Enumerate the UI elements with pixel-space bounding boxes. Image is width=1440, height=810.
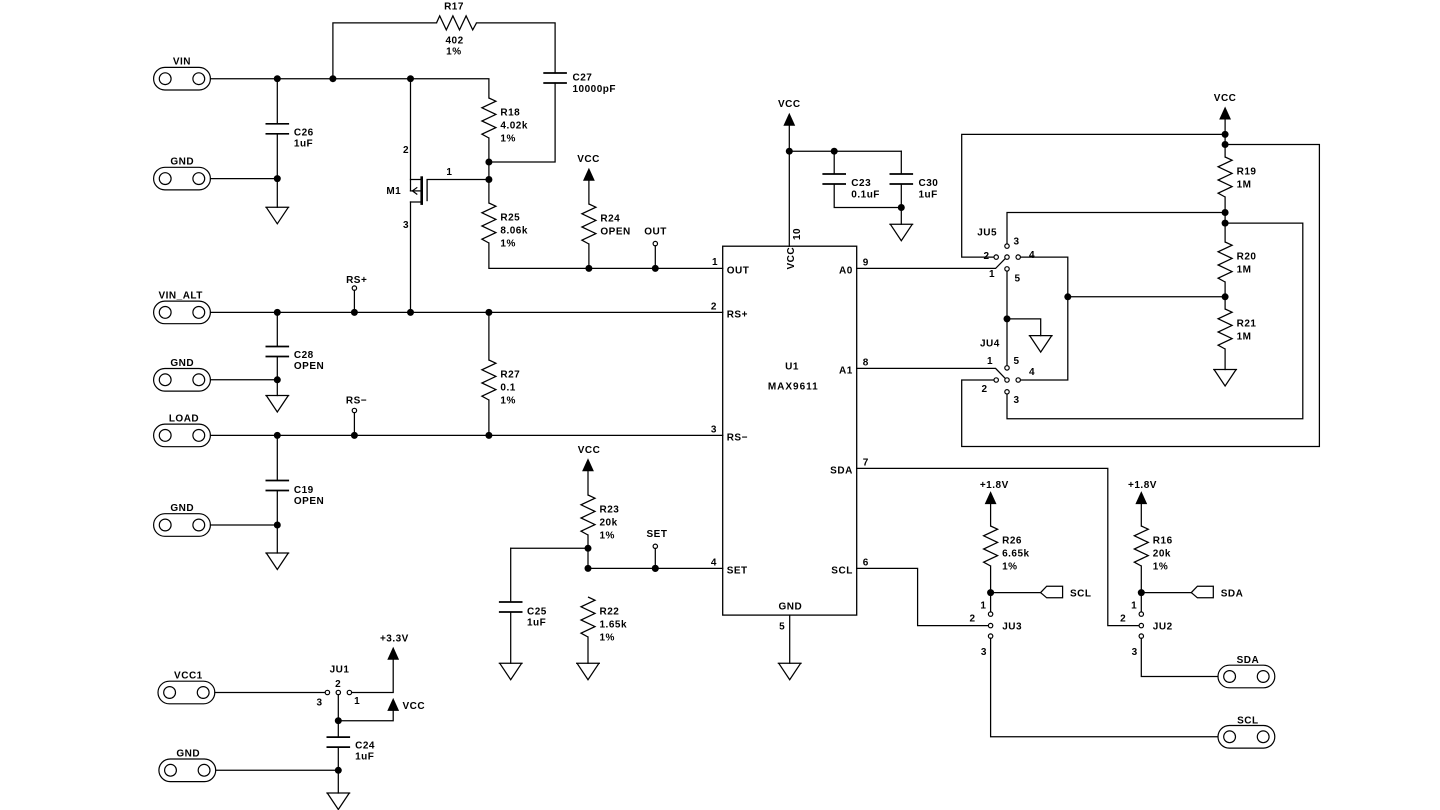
svg-text:OUT: OUT (727, 265, 750, 276)
svg-text:3: 3 (1013, 395, 1019, 406)
svg-text:C26: C26 (294, 128, 314, 139)
svg-text:3: 3 (316, 697, 322, 708)
svg-text:GND: GND (779, 601, 803, 612)
svg-text:1%: 1% (1002, 562, 1017, 573)
svg-text:OPEN: OPEN (294, 361, 324, 372)
svg-text:1uF: 1uF (919, 190, 938, 201)
svg-text:1uF: 1uF (355, 752, 374, 763)
svg-text:9: 9 (863, 257, 869, 268)
svg-text:OUT: OUT (644, 226, 667, 237)
svg-text:10: 10 (792, 228, 803, 240)
svg-text:GND: GND (176, 748, 200, 759)
svg-text:R17: R17 (444, 1, 464, 12)
svg-text:JU3: JU3 (1002, 621, 1022, 632)
svg-text:OPEN: OPEN (294, 496, 324, 507)
svg-text:4: 4 (1029, 367, 1035, 378)
svg-text:1M: 1M (1237, 332, 1252, 343)
svg-text:C24: C24 (355, 741, 375, 752)
svg-text:5: 5 (779, 621, 785, 632)
svg-text:SDA: SDA (1221, 589, 1244, 600)
svg-text:1%: 1% (446, 46, 461, 57)
svg-text:1%: 1% (500, 239, 515, 250)
svg-text:R16: R16 (1153, 536, 1173, 547)
svg-text:R18: R18 (500, 108, 520, 119)
svg-text:3: 3 (1013, 237, 1019, 248)
svg-text:1%: 1% (500, 396, 515, 407)
svg-text:A0: A0 (839, 265, 853, 276)
svg-text:1: 1 (1131, 600, 1137, 611)
svg-text:R19: R19 (1237, 167, 1257, 178)
svg-text:SDA: SDA (1237, 655, 1260, 666)
svg-text:1: 1 (989, 269, 995, 280)
svg-text:RS+: RS+ (346, 275, 367, 286)
svg-text:2: 2 (969, 614, 975, 625)
svg-text:RS−: RS− (346, 396, 367, 407)
svg-text:MAX9611: MAX9611 (768, 382, 819, 393)
svg-text:R25: R25 (500, 213, 520, 224)
svg-text:JU2: JU2 (1153, 621, 1173, 632)
svg-text:RS+: RS+ (727, 309, 748, 320)
svg-text:0.1uF: 0.1uF (851, 190, 880, 201)
svg-text:VCC: VCC (577, 154, 600, 165)
svg-text:R20: R20 (1237, 252, 1257, 263)
svg-text:C19: C19 (294, 485, 314, 496)
svg-text:3: 3 (711, 424, 717, 435)
svg-text:1uF: 1uF (294, 139, 313, 150)
svg-text:1M: 1M (1237, 265, 1252, 276)
svg-text:SDA: SDA (830, 465, 853, 476)
svg-text:6: 6 (863, 557, 869, 568)
svg-text:3: 3 (403, 220, 409, 231)
svg-text:+1.8V: +1.8V (980, 480, 1009, 491)
svg-text:2: 2 (335, 679, 341, 690)
svg-text:1: 1 (354, 696, 360, 707)
svg-text:VCC: VCC (1214, 93, 1237, 104)
svg-text:1%: 1% (1153, 562, 1168, 573)
svg-text:8: 8 (863, 357, 869, 368)
svg-text:1%: 1% (600, 633, 615, 644)
svg-text:C25: C25 (527, 607, 547, 618)
svg-text:RS−: RS− (727, 432, 748, 443)
svg-text:VCC: VCC (778, 99, 801, 110)
svg-text:4: 4 (1029, 250, 1035, 261)
svg-text:0.1: 0.1 (500, 383, 515, 394)
svg-text:+1.8V: +1.8V (1128, 480, 1157, 491)
svg-text:3: 3 (1132, 647, 1138, 658)
svg-text:SCL: SCL (831, 565, 853, 576)
svg-text:SCL: SCL (1070, 589, 1092, 600)
svg-text:VIN_ALT: VIN_ALT (158, 290, 202, 301)
svg-text:20k: 20k (600, 518, 618, 529)
svg-text:8.06k: 8.06k (500, 226, 528, 237)
svg-text:SET: SET (647, 529, 668, 540)
svg-text:VCC: VCC (403, 701, 426, 712)
svg-text:1%: 1% (600, 531, 615, 542)
svg-text:1%: 1% (500, 134, 515, 145)
svg-text:GND: GND (170, 358, 194, 369)
svg-text:LOAD: LOAD (169, 413, 199, 424)
svg-text:402: 402 (446, 35, 464, 46)
svg-text:3: 3 (981, 647, 987, 658)
svg-text:GND: GND (170, 157, 194, 168)
svg-text:SET: SET (727, 565, 748, 576)
svg-text:20k: 20k (1153, 549, 1171, 560)
svg-text:VCC: VCC (786, 247, 797, 270)
svg-text:1: 1 (446, 167, 452, 178)
svg-text:OPEN: OPEN (600, 227, 630, 238)
svg-text:4.02k: 4.02k (500, 121, 528, 132)
svg-text:R26: R26 (1002, 536, 1022, 547)
svg-text:1.65k: 1.65k (600, 620, 628, 631)
svg-text:6.65k: 6.65k (1002, 549, 1030, 560)
svg-text:JU5: JU5 (977, 227, 997, 238)
svg-text:JU1: JU1 (330, 665, 350, 676)
svg-text:C30: C30 (919, 178, 939, 189)
svg-text:R24: R24 (600, 214, 620, 225)
svg-text:2: 2 (711, 301, 717, 312)
svg-text:4: 4 (711, 557, 717, 568)
svg-text:JU4: JU4 (980, 339, 1000, 350)
svg-text:C28: C28 (294, 350, 314, 361)
svg-text:1M: 1M (1237, 180, 1252, 191)
svg-text:R27: R27 (500, 370, 520, 381)
svg-text:1: 1 (980, 600, 986, 611)
svg-text:5: 5 (1013, 356, 1019, 367)
svg-text:A1: A1 (839, 365, 853, 376)
svg-text:R23: R23 (600, 505, 620, 516)
svg-text:2: 2 (981, 384, 987, 395)
svg-text:10000pF: 10000pF (573, 84, 617, 95)
svg-text:2: 2 (403, 145, 409, 156)
svg-text:VCC1: VCC1 (174, 671, 203, 682)
svg-text:+3.3V: +3.3V (380, 634, 409, 645)
svg-text:SCL: SCL (1237, 715, 1259, 726)
svg-text:VCC: VCC (578, 445, 601, 456)
svg-text:C23: C23 (851, 178, 871, 189)
svg-text:VIN: VIN (173, 57, 191, 68)
svg-text:5: 5 (1014, 274, 1020, 285)
svg-text:GND: GND (170, 503, 194, 514)
svg-text:7: 7 (863, 457, 869, 468)
svg-text:2: 2 (1120, 614, 1126, 625)
svg-text:U1: U1 (785, 362, 799, 373)
svg-text:2: 2 (983, 251, 989, 262)
svg-text:C27: C27 (573, 73, 593, 84)
svg-text:R21: R21 (1237, 319, 1257, 330)
svg-text:R22: R22 (600, 607, 620, 618)
svg-text:1: 1 (712, 257, 718, 268)
svg-text:1uF: 1uF (527, 618, 546, 629)
svg-text:M1: M1 (386, 186, 401, 197)
svg-text:1: 1 (987, 356, 993, 367)
